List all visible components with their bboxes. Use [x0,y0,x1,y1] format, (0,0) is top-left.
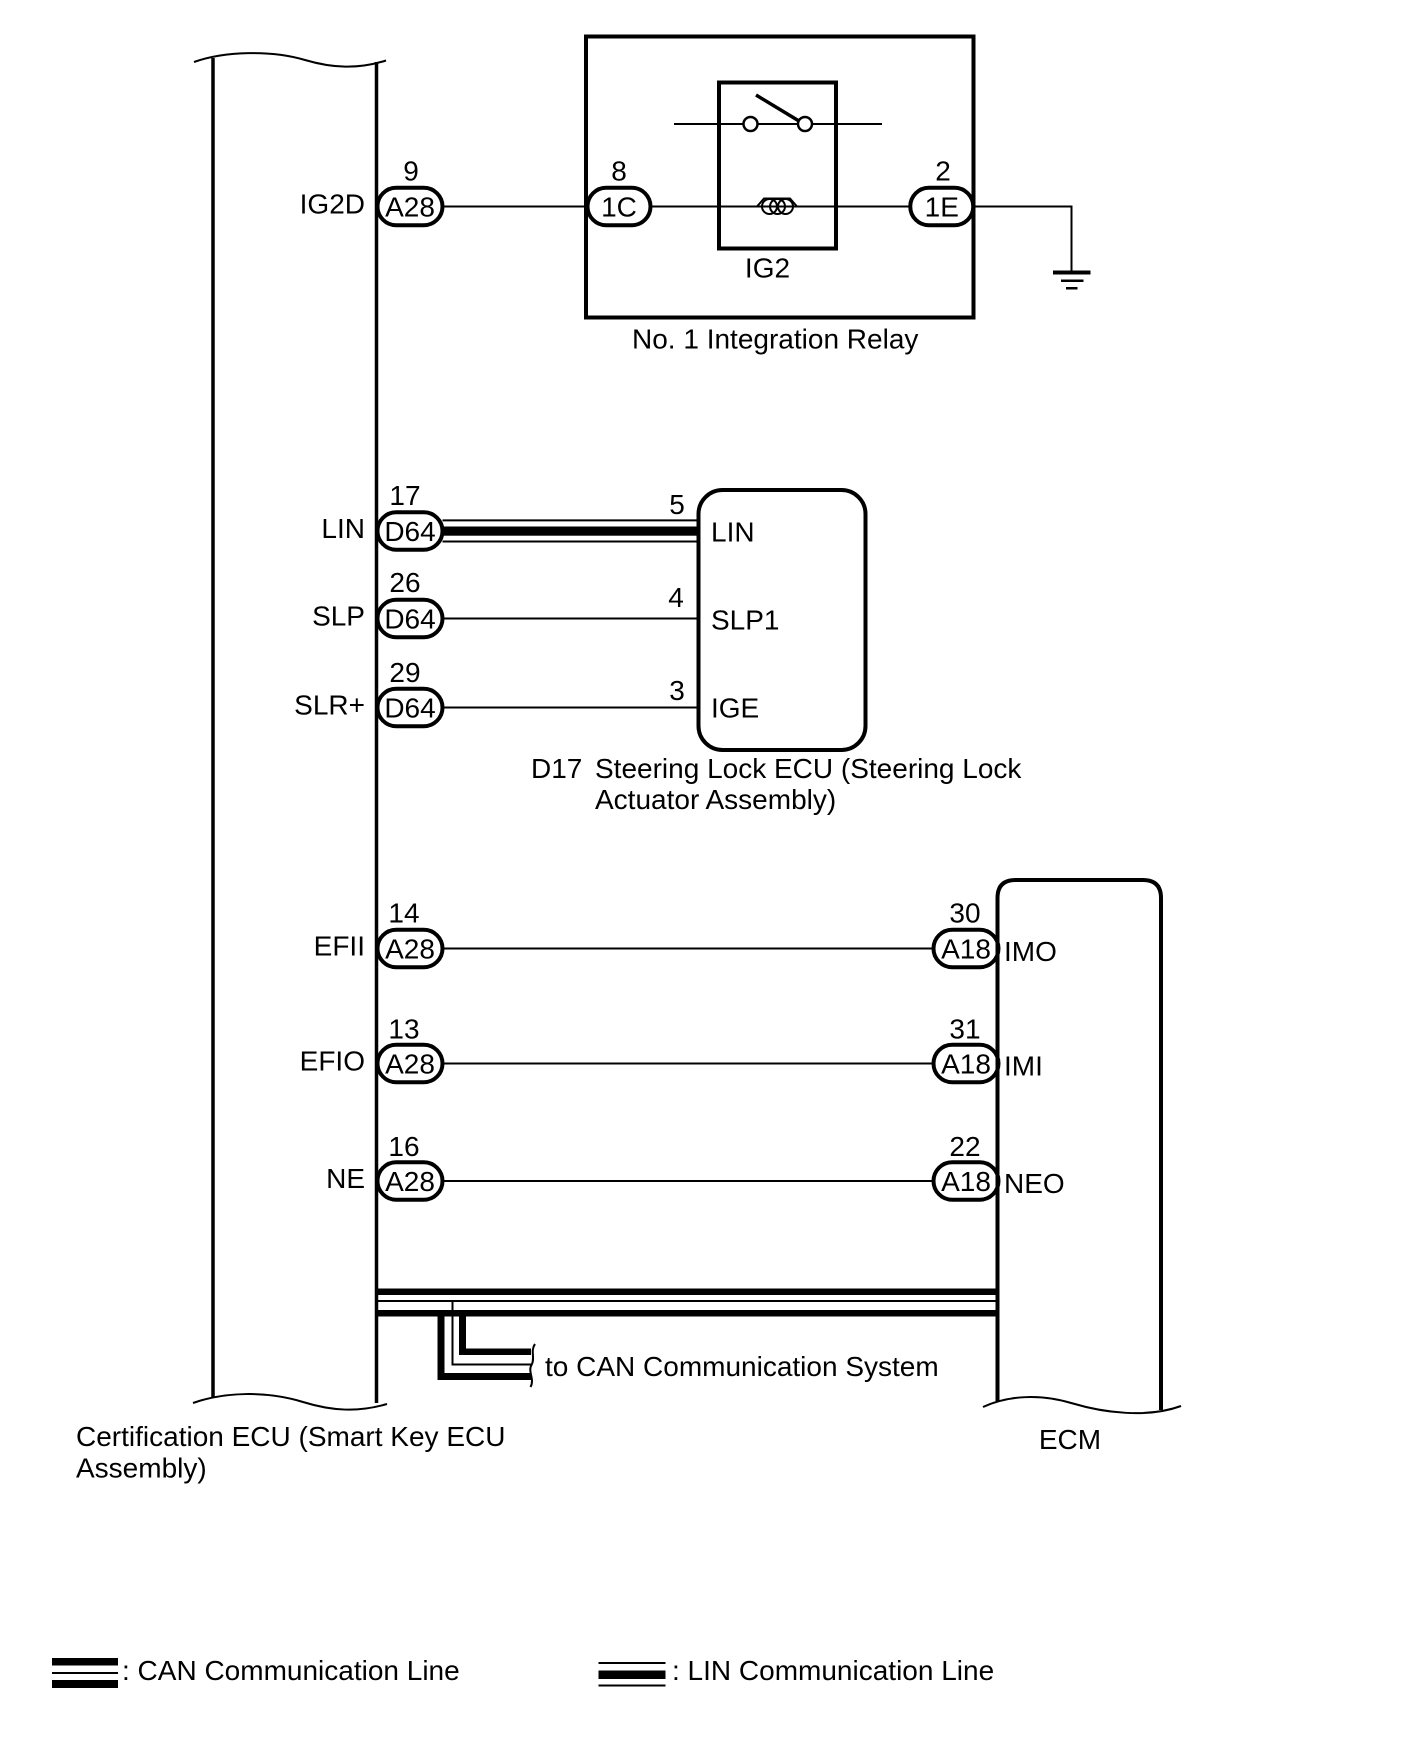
connector A28 pin 9 (IG2D) [378,188,443,226]
CAN stub break mark [530,1344,535,1387]
wire SLR+ to IGE [443,707,701,709]
svg-text:26: 26 [389,567,420,598]
svg-text:3: 3 [669,675,685,706]
svg-text:NEO: NEO [1004,1168,1065,1199]
legend: LIN Communication Line symbol [599,1662,666,1687]
svg-text:D64: D64 [384,604,435,635]
svg-text:4: 4 [668,582,684,613]
connector A18 pin 30 (IMO) [934,930,999,968]
svg-text:2: 2 [935,156,951,187]
relay switch left contact circle [744,117,758,131]
relay switch right contact circle [798,117,812,131]
relay coil IG2 [757,199,797,215]
wire: wavy bottom edge of ECM box [983,1397,1181,1413]
svg-text:ECM: ECM [1039,1424,1101,1455]
svg-text:A18: A18 [941,1049,991,1080]
connector A28 pin 16 (NE) [378,1162,443,1200]
wire through relay coil (1C to 1E) [649,206,911,208]
svg-text:Actuator Assembly): Actuator Assembly) [595,784,836,815]
wire SLP to SLP1 [443,618,701,620]
svg-text:IMO: IMO [1004,936,1057,967]
connector A28 pin 13 (EFIO) [378,1045,443,1083]
svg-text:to CAN Communication System: to CAN Communication System [545,1351,939,1382]
svg-text:Steering Lock ECU (Steering Lo: Steering Lock ECU (Steering Lock [595,753,1022,784]
svg-text:: CAN Communication Line: : CAN Communication Line [122,1655,460,1686]
CAN stub bottom thick horizontal [438,1373,532,1380]
CAN stub left thick vertical [438,1310,445,1380]
CAN communication bus between Certification ECU and ECM [375,1289,998,1381]
wire NE to NEO [443,1180,935,1182]
svg-text:A28: A28 [385,1166,435,1197]
svg-text:16: 16 [388,1131,419,1162]
CAN stub right thick vertical [459,1310,466,1355]
svg-text:A28: A28 [385,1049,435,1080]
CAN bus bottom thick line [375,1310,998,1317]
svg-text:Assembly): Assembly) [76,1453,207,1484]
wire IG2D from A28 to 1C [443,206,589,208]
svg-text:1C: 1C [601,192,637,223]
ground symbol [1053,271,1091,290]
connector A18 pin 31 (IMI) [934,1045,999,1083]
svg-text:29: 29 [389,657,420,688]
svg-text:13: 13 [388,1014,419,1045]
svg-text:No. 1 Integration Relay: No. 1 Integration Relay [632,324,918,355]
LIN communication line (thin-thick-thin) [443,520,701,541]
D17 Steering Lock ECU box [699,490,866,750]
connector A18 pin 22 (NEO) [934,1162,999,1200]
CAN stub top thick horizontal [459,1349,531,1356]
CAN stub thin vertical [452,1302,454,1365]
connector D64 pin 17 (LIN) [378,512,443,550]
svg-text:IMI: IMI [1004,1051,1043,1082]
svg-text:22: 22 [949,1131,980,1162]
svg-text:17: 17 [389,480,420,511]
svg-text:1E: 1E [925,192,959,223]
svg-text:NE: NE [326,1163,365,1194]
svg-text:EFII: EFII [314,931,365,962]
svg-text:IG2: IG2 [745,253,790,284]
svg-text:D64: D64 [384,516,435,547]
wire: relay switch horizontal line [674,123,882,125]
relay IG2 inner box [719,83,836,249]
wire: wavy top edge of Certification ECU bar [194,53,386,67]
svg-text:D64: D64 [384,693,435,724]
svg-text:LIN: LIN [711,517,755,548]
No. 1 Integration Relay outer box [586,37,974,318]
connector D64 pin 26 (SLP) [378,600,443,638]
svg-text:IGE: IGE [711,693,759,724]
wire: right edge of Certification ECU bar [375,62,379,1403]
svg-text:Certification ECU (Smart Key E: Certification ECU (Smart Key ECU [76,1421,505,1452]
svg-text:14: 14 [388,898,419,929]
CAN bus top thick line [375,1289,998,1296]
svg-text:A18: A18 [941,934,991,965]
svg-text:LIN: LIN [321,513,365,544]
svg-text:SLP1: SLP1 [711,605,780,636]
Certification ECU (Smart Key ECU Assembly) left bus bar [193,53,387,1410]
svg-text:A18: A18 [941,1166,991,1197]
svg-text:SLR+: SLR+ [294,690,365,721]
CAN bus center thin line [375,1300,998,1302]
connector 1C pin 8 [588,188,651,226]
svg-text:31: 31 [949,1014,980,1045]
connector 1E pin 2 [910,188,973,226]
svg-text:5: 5 [669,489,685,520]
wire: wavy bottom edge of Certification ECU bar [193,1394,387,1410]
legend: CAN Communication Line symbol [52,1658,118,1688]
connector A28 pin 14 (EFII) [378,930,443,968]
svg-text:EFIO: EFIO [300,1046,365,1077]
wire: left edge of Certification ECU bar [211,58,215,1398]
svg-text:D17: D17 [531,753,582,784]
svg-text:9: 9 [403,156,419,187]
svg-text:A28: A28 [385,934,435,965]
svg-text:A28: A28 [385,192,435,223]
wire from 1E to ground [974,207,1072,272]
relay switch arm [756,95,799,121]
connector D64 pin 29 (SLR+) [378,689,443,727]
CAN stub thin horizontal [452,1364,532,1366]
svg-text:IG2D: IG2D [300,189,365,220]
ECM box [983,880,1181,1413]
svg-text:: LIN Communication Line: : LIN Communication Line [672,1655,994,1686]
svg-text:8: 8 [611,156,627,187]
svg-text:30: 30 [949,898,980,929]
svg-text:SLP: SLP [312,601,365,632]
wire EFIO to IMI [443,1063,935,1065]
wire EFII to IMO [443,948,935,950]
